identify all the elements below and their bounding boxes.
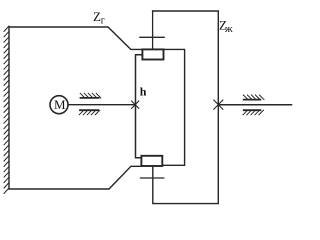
svg-text:Z: Z — [93, 9, 101, 24]
left guide support upper hatching — [80, 93, 101, 98]
top rod wire — [152, 11, 154, 49]
right guide support lower hatching — [243, 110, 264, 115]
right guide support upper bar — [244, 99, 261, 101]
piston tab top — [142, 49, 163, 59]
right guide support lower bar — [244, 109, 261, 111]
left guide support lower bar — [80, 109, 98, 111]
node X left (shaft to cylinder) — [132, 101, 139, 108]
right yoke frame — [162, 49, 184, 165]
left guide support lower hatching — [79, 110, 100, 115]
bottom rod tick — [141, 177, 164, 179]
svg-text:M: M — [54, 97, 66, 112]
right guide support upper hatching — [243, 95, 264, 100]
svg-text:г: г — [101, 16, 105, 27]
piston tab bottom — [141, 156, 162, 166]
svg-text:h: h — [140, 85, 147, 99]
motor shaft wire — [68, 104, 135, 106]
svg-text:ж: ж — [224, 23, 233, 35]
motor M circle — [50, 96, 68, 114]
outer frame: top, right, bottom wires — [153, 11, 219, 204]
machine body outline — [9, 27, 142, 189]
node X right (frame to foundation line) — [214, 100, 223, 109]
wall hatching on machine body left edge — [4, 26, 9, 193]
foundation line right — [218, 104, 291, 106]
top rod tick — [140, 36, 164, 38]
left guide support upper bar — [81, 97, 99, 99]
cylinder bracket (left C-shape) — [136, 55, 143, 158]
